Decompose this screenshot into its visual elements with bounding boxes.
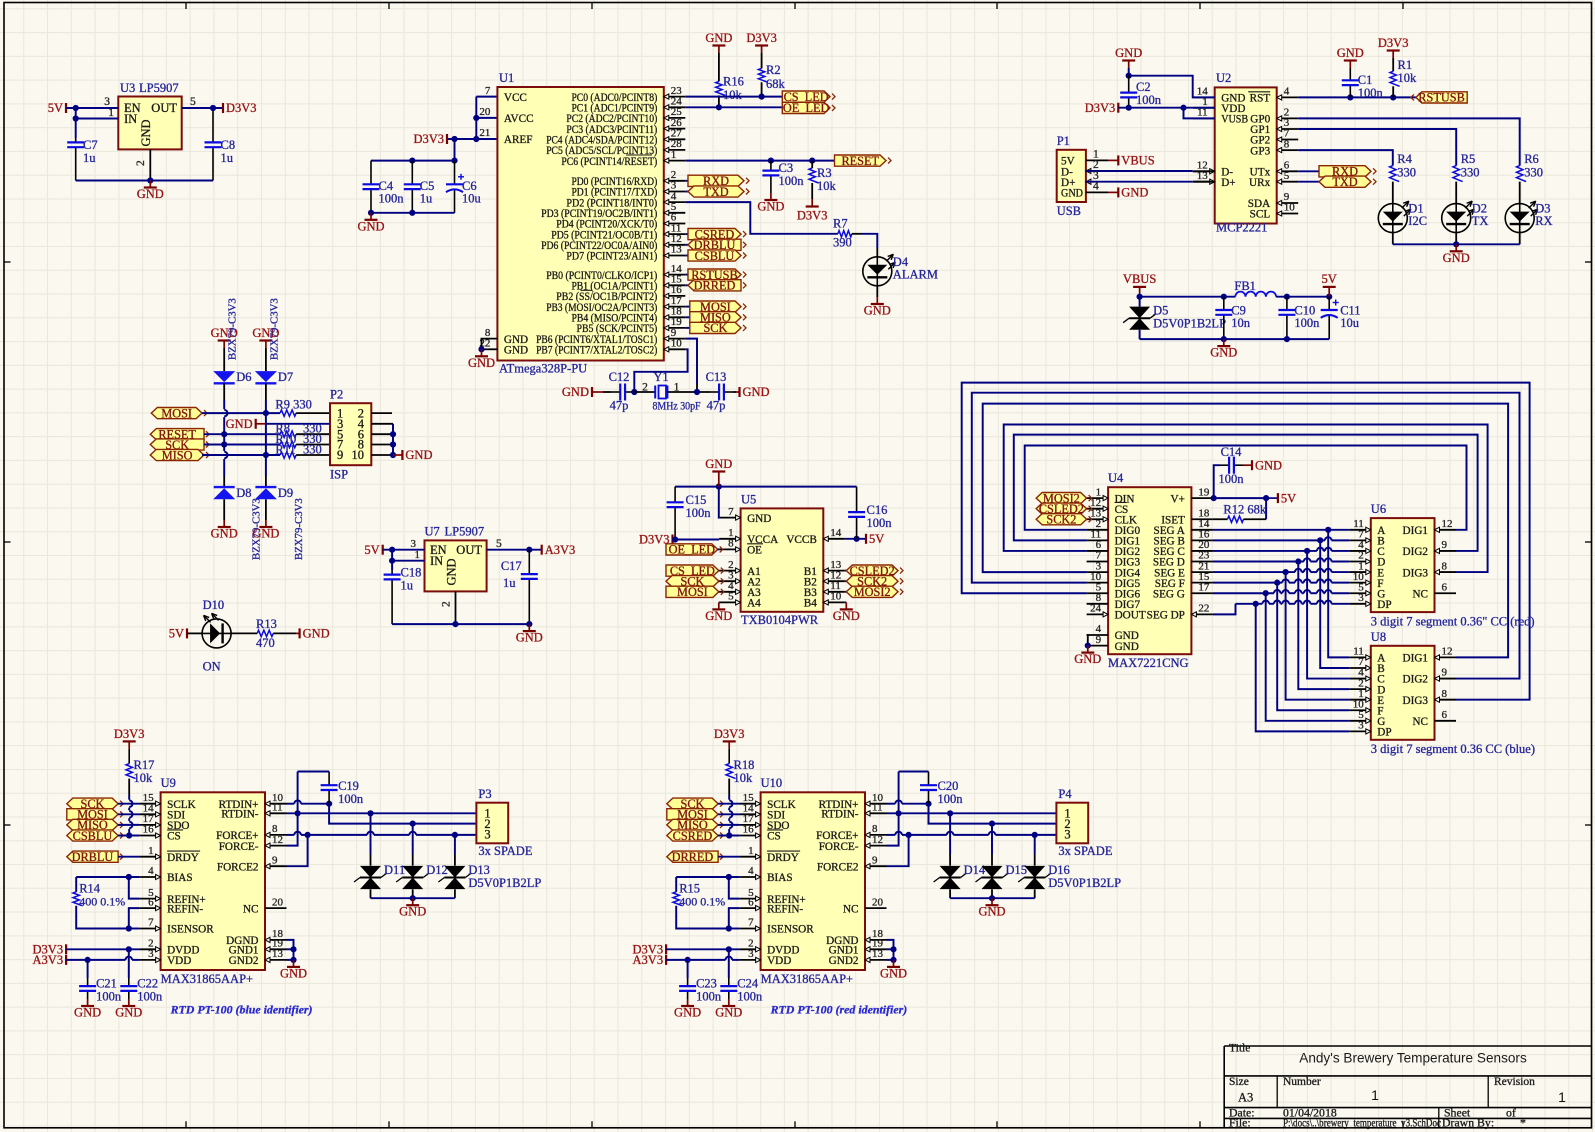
svg-text:3 digit 7 segment 0.36" CC (re: 3 digit 7 segment 0.36" CC (red) [1371, 615, 1535, 629]
wire [728, 795, 730, 800]
wire [1310, 582, 1317, 584]
svg-text:D3V3: D3V3 [114, 727, 145, 741]
wire [475, 97, 477, 139]
pin 17 SDO [739, 824, 761, 826]
ground GND below D9 [265, 520, 267, 527]
svg-text:13: 13 [872, 948, 884, 960]
svg-text:5V: 5V [869, 532, 884, 546]
wire [118, 803, 139, 805]
wire D10 to R13 [231, 632, 257, 634]
wire [1277, 583, 1349, 711]
svg-text:D9: D9 [278, 486, 293, 500]
wire [732, 959, 739, 961]
svg-text:330: 330 [1397, 166, 1416, 180]
svg-text:A3V3: A3V3 [633, 953, 664, 967]
wire [949, 813, 951, 854]
wire [297, 772, 299, 814]
svg-text:D15: D15 [1006, 863, 1028, 877]
svg-text:470: 470 [256, 636, 275, 650]
svg-text:RTD PT-100 (red identifier): RTD PT-100 (red identifier) [770, 1003, 908, 1017]
svg-text:9: 9 [272, 854, 278, 866]
wire [845, 601, 847, 603]
pin 4 BIAS [139, 876, 161, 878]
pin 7 GND [719, 517, 741, 519]
svg-text:C17: C17 [501, 559, 522, 573]
wire [1298, 150, 1393, 166]
wire [1298, 562, 1349, 690]
pin 5 DIG6 [1087, 592, 1109, 594]
pin 1 5V [1086, 159, 1108, 161]
pin 1 VDD [1193, 107, 1215, 109]
wire [118, 824, 139, 826]
wire [676, 906, 729, 929]
svg-text:68k: 68k [766, 77, 786, 91]
wire [995, 834, 1056, 836]
pin 1 VCCA [719, 538, 741, 540]
pin 4 GND [1086, 191, 1108, 193]
pin 2 PD0 [664, 180, 686, 182]
svg-text:ISENSOR: ISENSOR [767, 924, 814, 936]
display driver U4 MAX7221CNG [1108, 487, 1191, 654]
svg-text:LP5907: LP5907 [139, 81, 179, 95]
capacitor C13 47p [710, 391, 719, 393]
svg-text:FB1: FB1 [1234, 279, 1256, 293]
pin 17 PB3 [664, 306, 686, 308]
power port 5V [1266, 497, 1278, 499]
svg-text:D12: D12 [426, 863, 448, 877]
svg-text:MISO: MISO [162, 448, 193, 462]
svg-text:LP5907: LP5907 [445, 525, 485, 539]
svg-text:GND: GND [504, 345, 528, 357]
svg-text:GND: GND [1443, 251, 1470, 265]
svg-text:10k: 10k [817, 179, 837, 193]
power port A3V3 [65, 955, 67, 965]
svg-text:DIG3: DIG3 [1403, 695, 1429, 707]
pin 12 PD6 [664, 244, 686, 246]
svg-text:D3V3: D3V3 [714, 727, 745, 741]
svg-text:SCK: SCK [703, 321, 727, 335]
pin 18 PB4 [664, 316, 686, 318]
pin 21 AREF [496, 138, 498, 140]
svg-text:GND: GND [211, 527, 238, 541]
wire [929, 804, 993, 824]
wire [845, 570, 847, 572]
svg-text:MAX31865AAP+: MAX31865AAP+ [761, 972, 853, 986]
svg-text:C14: C14 [1221, 445, 1243, 459]
wire [685, 284, 688, 286]
pin 1 E [1349, 571, 1371, 573]
svg-text:11: 11 [272, 802, 283, 814]
ground GND [1087, 646, 1089, 653]
wire [845, 580, 847, 582]
pin 1 DRDY [139, 856, 161, 858]
svg-text:SEG G: SEG G [1153, 588, 1185, 600]
wire [487, 549, 542, 551]
port MOSI [667, 809, 718, 820]
wire [1332, 571, 1350, 573]
svg-text:GND: GND [705, 457, 732, 471]
svg-text:GND: GND [468, 356, 495, 370]
svg-text:D3V3: D3V3 [746, 31, 777, 45]
svg-text:GND: GND [137, 187, 164, 201]
port RESET [150, 429, 204, 440]
pin 22 SEG DP [1191, 613, 1213, 615]
power port D3V3 above R1 [1392, 51, 1394, 59]
wire [265, 400, 267, 476]
wire 5V to D10 [187, 632, 202, 634]
svg-text:ALARM: ALARM [893, 267, 938, 281]
svg-text:1: 1 [415, 549, 421, 561]
wire [729, 877, 739, 899]
pin 5 REFIN+ [139, 898, 161, 900]
wire [1393, 243, 1520, 245]
wire [909, 834, 947, 836]
pin 11 RTDIN- [265, 812, 287, 814]
pin 3 VDD [139, 959, 161, 961]
svg-text:16: 16 [143, 824, 155, 836]
wire [718, 835, 739, 837]
svg-text:D5: D5 [1153, 304, 1168, 318]
ground GND above D7 [265, 341, 267, 349]
wire [1298, 170, 1319, 172]
svg-text:9: 9 [1442, 539, 1448, 551]
svg-text:U10: U10 [761, 776, 783, 790]
pin 9 FORCE2 [865, 865, 887, 867]
mcu U1 ATmega328P-PU [497, 87, 663, 361]
svg-text:PB7 (PCINT7/XTAL2/TOSC2): PB7 (PCINT7/XTAL2/TOSC2) [536, 345, 657, 357]
pin 18 ISET [1191, 518, 1213, 520]
svg-text:6: 6 [1442, 709, 1448, 721]
capacitor C5 1u [411, 161, 413, 185]
svg-text:3: 3 [1358, 592, 1364, 604]
wire [76, 906, 129, 929]
svg-text:GND: GND [280, 966, 307, 980]
wire [962, 383, 1530, 700]
pin 20 NC [265, 907, 287, 909]
port CS_LED [782, 91, 830, 102]
svg-text:OE: OE [747, 545, 762, 557]
wire [1034, 835, 1036, 854]
wire [718, 591, 720, 593]
wire [66, 948, 139, 950]
pin 3 GP1 [1277, 128, 1299, 130]
wire [685, 316, 690, 318]
svg-text:AREF: AREF [504, 134, 533, 146]
pin 3 D+ wire [1086, 179, 1091, 184]
wire [129, 908, 139, 928]
wire [685, 191, 688, 193]
wire [673, 539, 720, 541]
wire GND pins [482, 339, 498, 350]
wire [1324, 561, 1325, 563]
svg-text:3: 3 [148, 948, 154, 960]
svg-text:D+: D+ [1221, 177, 1235, 189]
svg-text:GND: GND [139, 119, 153, 146]
svg-text:3 digit 7 segment 0.36 CC (blu: 3 digit 7 segment 0.36 CC (blue) [1371, 742, 1535, 756]
port CSBLU [67, 830, 118, 841]
pin 10 RTDIN+ [265, 803, 287, 805]
svg-text:R7: R7 [833, 217, 848, 231]
svg-text:24: 24 [1090, 603, 1102, 615]
display U6 3-digit 7-segment [1371, 518, 1435, 612]
svg-text:TXD: TXD [1332, 175, 1357, 189]
svg-text:R5: R5 [1461, 152, 1476, 166]
wire [887, 835, 909, 866]
svg-text:5V: 5V [1281, 491, 1296, 505]
pin 11 DIG1 [1087, 539, 1109, 541]
pin 23 PC0 [664, 96, 686, 98]
wire [75, 119, 77, 139]
wire [983, 404, 1508, 658]
wire [1298, 181, 1319, 183]
svg-text:D8: D8 [236, 486, 251, 500]
pin 3 A2 [719, 580, 741, 582]
wire [1139, 330, 1141, 339]
svg-text:R17: R17 [134, 758, 155, 772]
wire [718, 570, 720, 572]
pin 5 PD3 [664, 212, 686, 214]
svg-text:330: 330 [1524, 166, 1543, 180]
svg-text:C23: C23 [696, 977, 717, 991]
svg-text:4: 4 [1284, 86, 1290, 98]
pin 19 GND1 [265, 948, 287, 950]
wire [329, 804, 413, 824]
wire [685, 244, 688, 246]
power port 5V [1328, 287, 1330, 297]
pin 2 D- wire [1086, 168, 1091, 173]
ferrite bead FB1 [1235, 292, 1276, 297]
wire [129, 928, 139, 930]
pin 3 PD1 [664, 191, 686, 193]
wire [128, 829, 130, 836]
wire [223, 417, 225, 451]
wire [685, 160, 834, 162]
wire pullup column to CS [128, 779, 130, 795]
ground GND above D6 [223, 341, 225, 349]
svg-text:10k: 10k [723, 88, 743, 102]
pin 28 PC5 [664, 149, 686, 151]
pin 10 PB7 [664, 348, 686, 350]
wire [118, 813, 139, 815]
capacitor C1 100n [1349, 68, 1351, 80]
pin 5 URx [1277, 181, 1299, 183]
svg-text:RESET: RESET [841, 154, 879, 168]
pin 5 G [1349, 720, 1371, 722]
svg-text:C3: C3 [779, 161, 794, 175]
wire [685, 96, 782, 98]
wire [1266, 593, 1350, 721]
svg-text:RTDIN-: RTDIN- [221, 809, 259, 821]
wire [476, 117, 497, 119]
wire [887, 948, 894, 950]
wire [1302, 582, 1304, 584]
svg-text:DP: DP [1377, 599, 1391, 611]
port MOSI [151, 408, 202, 419]
svg-text:100n: 100n [137, 990, 163, 1004]
pin 8 FORCE+ [265, 834, 287, 836]
svg-text:DRRED: DRRED [694, 279, 736, 293]
wire [1324, 571, 1325, 573]
wire [1213, 550, 1317, 552]
svg-text:GND: GND [399, 905, 426, 919]
svg-text:19: 19 [1198, 486, 1210, 498]
wire [76, 876, 139, 878]
wire [887, 940, 894, 960]
wire [374, 834, 410, 836]
capacitor C9 10n [1223, 297, 1225, 310]
power port D3V3 [65, 944, 67, 954]
svg-text:C24: C24 [737, 977, 759, 991]
svg-text:5: 5 [190, 96, 196, 108]
svg-text:R3: R3 [817, 166, 832, 180]
wire [392, 424, 394, 455]
svg-text:3: 3 [748, 948, 754, 960]
capacitor C2 100n [1128, 76, 1130, 93]
zener diode D7 BZX79-C3V3 [265, 348, 267, 371]
pin 21 SEG E [1191, 571, 1213, 573]
svg-text:1: 1 [1558, 1089, 1566, 1105]
wire [223, 400, 225, 409]
pin 7 GP2 [1277, 139, 1299, 141]
svg-text:A3V3: A3V3 [33, 953, 64, 967]
svg-text:GND: GND [303, 627, 330, 641]
pin 7 ISENSOR [739, 928, 761, 930]
svg-text:10u: 10u [462, 192, 482, 206]
svg-text:D3V3: D3V3 [1378, 36, 1409, 50]
svg-text:GND: GND [743, 385, 770, 399]
pin 14 PB0 [664, 274, 686, 276]
svg-text:U4: U4 [1108, 471, 1124, 485]
svg-text:3: 3 [484, 828, 490, 842]
pin 11 B3 [823, 591, 845, 593]
svg-text:100n: 100n [696, 990, 722, 1004]
wire D6 column [223, 383, 225, 400]
wire [1307, 551, 1349, 679]
port RESET [835, 155, 887, 166]
pin 2 DVDD [739, 948, 761, 950]
svg-text:DIG2: DIG2 [1403, 674, 1428, 686]
pin 7 VCC [496, 96, 498, 98]
svg-text:DOUT: DOUT [1115, 610, 1146, 622]
pin 10 DIG5 [1087, 582, 1109, 584]
capacitor C16 100n [856, 487, 858, 512]
pin 7 B [1349, 667, 1371, 669]
pin 18 DGND [265, 939, 287, 941]
svg-text:GND: GND [1121, 186, 1148, 200]
wire [287, 803, 295, 805]
wire [287, 812, 477, 814]
svg-text:RTDIN-: RTDIN- [821, 809, 859, 821]
svg-text:D16: D16 [1048, 863, 1070, 877]
resistor R13 470 [257, 630, 273, 636]
svg-text:P:\docs\..\brewery_temperature: P:\docs\..\brewery_temperature_v3.SchDoc [1283, 1116, 1441, 1130]
pin 16 SEG B [1191, 539, 1213, 541]
resistor R7 390 [838, 231, 852, 237]
svg-text:GND: GND [1074, 652, 1101, 666]
wire [266, 423, 330, 425]
port SCK2 [1036, 514, 1086, 525]
svg-text:3x SPADE: 3x SPADE [478, 844, 532, 858]
wire [1332, 539, 1350, 541]
wire [1332, 550, 1350, 552]
svg-text:GND: GND [357, 219, 384, 233]
svg-text:GND: GND [226, 417, 253, 431]
wire [728, 829, 730, 836]
wire [992, 823, 1056, 825]
svg-text:8: 8 [728, 538, 734, 550]
pin 7 ISENSOR [139, 928, 161, 930]
wire [1302, 571, 1304, 573]
pin 6 NC [1435, 720, 1457, 722]
svg-text:P4: P4 [1058, 787, 1072, 801]
wire [128, 808, 130, 811]
pin 1 DRDY [739, 856, 761, 858]
pin 13 D+ [1193, 181, 1215, 183]
pin 17 SEG G [1191, 592, 1213, 594]
svg-text:DP: DP [1377, 727, 1391, 739]
wire [1140, 296, 1236, 298]
svg-text:9: 9 [337, 448, 343, 462]
svg-text:OE_LED: OE_LED [669, 543, 716, 557]
pin 3 VDD [739, 959, 761, 961]
wire [685, 202, 838, 234]
svg-text:12: 12 [1442, 518, 1453, 530]
wire [718, 601, 720, 603]
pin 7 DIG3 [1087, 561, 1109, 563]
wire [666, 959, 725, 961]
svg-text:DRDY: DRDY [167, 852, 199, 864]
pin 1 E [1349, 699, 1371, 701]
svg-text:D3V3: D3V3 [639, 533, 670, 547]
wire [1213, 529, 1349, 531]
wire [1332, 582, 1350, 584]
svg-text:GND: GND [1061, 188, 1083, 200]
wire [1025, 446, 1467, 530]
svg-text:5: 5 [496, 538, 502, 550]
pin 2 GP0 [1277, 117, 1299, 119]
wire [887, 812, 1057, 814]
pin 19 V+ [1191, 497, 1213, 499]
svg-text:330: 330 [1461, 166, 1480, 180]
svg-text:3: 3 [1358, 720, 1364, 732]
wire [132, 959, 139, 961]
svg-text:P2: P2 [330, 388, 343, 402]
usb bridge U2 MCP2221 [1215, 87, 1277, 223]
wire [182, 107, 223, 109]
svg-text:R13: R13 [256, 617, 277, 631]
svg-text:GND: GND [705, 31, 732, 45]
wire [128, 949, 130, 978]
wire [87, 960, 89, 978]
pin 2 D [1349, 688, 1371, 690]
svg-text:GND2: GND2 [829, 955, 859, 967]
ground GND above C2 [1128, 61, 1130, 69]
svg-text:3x SPADE: 3x SPADE [1058, 844, 1112, 858]
pin 11 VUSB [1193, 117, 1215, 119]
svg-text:4: 4 [748, 865, 754, 877]
wire [728, 808, 730, 811]
svg-text:MOSI: MOSI [677, 585, 708, 599]
pin 11 A [1349, 656, 1371, 658]
svg-text:R12 68k: R12 68k [1223, 503, 1266, 517]
svg-text:9: 9 [872, 854, 878, 866]
svg-text:D5V0P1B2LP: D5V0P1B2LP [468, 876, 541, 890]
svg-text:NC: NC [843, 903, 859, 915]
wire [1281, 603, 1283, 605]
svg-text:R18: R18 [734, 758, 755, 772]
pin 10 F [1349, 709, 1371, 711]
wire [1086, 170, 1193, 172]
